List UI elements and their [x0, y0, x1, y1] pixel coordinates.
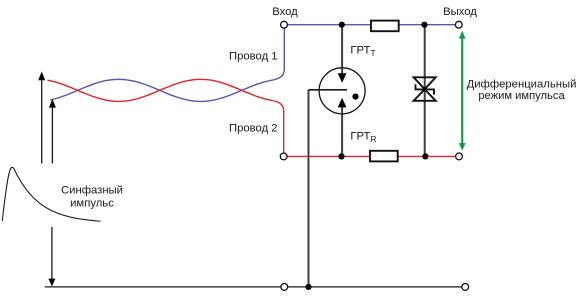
junction node on top wire at TVS [421, 22, 427, 28]
wire: twisted pair conductor 2 (red) [48, 79, 284, 153]
wire: red bottom line from resistor to output terminal [398, 155, 456, 157]
svg-text:Провод 1: Провод 1 [229, 50, 278, 62]
ground rail [45, 286, 465, 288]
wire: twisted pair conductor 1 (blue) [50, 28, 284, 101]
svg-text:Провод 2: Провод 2 [229, 122, 278, 134]
wire: GDT ground electrode vertical run to earth rail [308, 90, 310, 287]
svg-text:Синфазный: Синфазный [61, 185, 123, 197]
terminal: output top (Vyhod) [455, 21, 462, 28]
svg-text:Дифференциальный: Дифференциальный [467, 78, 577, 90]
svg-text:Выход: Выход [443, 6, 477, 18]
terminal: bottom left [280, 153, 287, 160]
resistor (top, series in conductor 1) [371, 21, 399, 32]
surge pulse waveform [2, 167, 100, 221]
terminal: ground rail left [281, 284, 288, 291]
gas discharge tube GRT (3-electrode) [309, 68, 366, 114]
wire: blue top line from resistor to output terminal [399, 24, 456, 26]
wire: TVS branch vertical [424, 25, 426, 157]
common-mode arrow on wire 1 [38, 72, 45, 164]
junction node on top wire at GDT [339, 22, 345, 28]
terminal: input (Vhod) [281, 21, 288, 28]
terminal: ground rail right [462, 284, 469, 291]
terminal: output bottom [456, 153, 463, 160]
resistor (bottom, series in conductor 2) [370, 151, 398, 162]
TVS suppressor diode (bidirectional) [414, 77, 436, 101]
wire: red bottom line from terminal to resistor [288, 155, 371, 157]
svg-text:Вход: Вход [272, 6, 298, 18]
svg-text:импульс: импульс [70, 198, 114, 210]
junction node on bottom wire at TVS [422, 153, 428, 159]
common-mode return arrow to ground [48, 227, 55, 287]
junction node on ground rail [305, 284, 311, 290]
svg-text:режим импульса: режим импульса [478, 90, 565, 102]
differential-mode annotation arrow (green, double headed) [459, 31, 466, 151]
common-mode arrow on wire 2 [49, 99, 56, 164]
wire: GDT bottom electrode lead [341, 107, 343, 157]
junction node on bottom wire at GDT [338, 153, 344, 159]
wire: GDT top electrode lead [341, 25, 343, 75]
wire: blue top line from input terminal to resistor [288, 24, 372, 26]
